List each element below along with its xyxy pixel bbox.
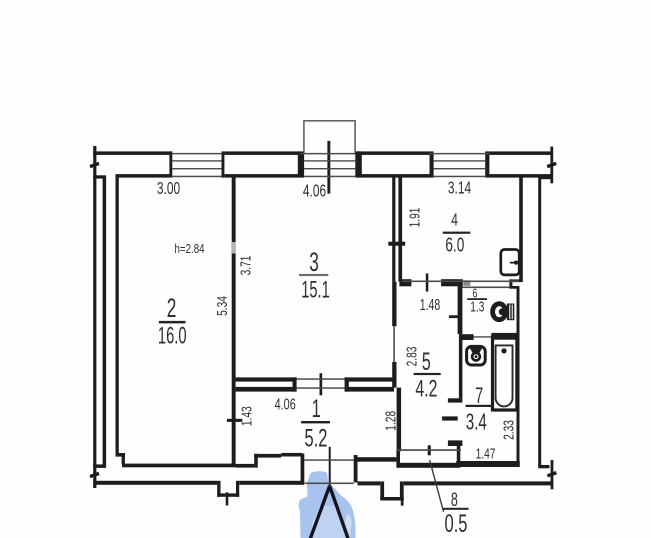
svg-text:5.34: 5.34 [213, 296, 231, 316]
bottom outer line seg2 [239, 481, 304, 485]
kitchen corner zig h1 [509, 279, 522, 282]
chimney stack line above W2 [327, 141, 330, 194]
bottom outer line seg1 [93, 481, 217, 485]
dim tick 1.43 on partition [227, 419, 242, 422]
svg-text:4.06: 4.06 [303, 181, 326, 201]
toilet top thin line [462, 287, 509, 289]
svg-text:8: 8 [451, 489, 458, 510]
left wall inner face [116, 177, 119, 454]
room 3 fraction bar [299, 274, 328, 276]
corridor floor seg1 [236, 464, 255, 468]
svg-text:4.06: 4.06 [275, 395, 296, 413]
room8 top thin line [396, 449, 461, 451]
room1 top wall band upper seg1 [236, 377, 297, 381]
svg-text:15.1: 15.1 [301, 277, 330, 304]
divider 3|5 lower [392, 362, 396, 388]
tick 3.4 [442, 416, 458, 420]
room1 top wall cap2 [345, 377, 349, 391]
tick 1.3 [449, 315, 462, 318]
kitchen corner zig h2 [509, 286, 519, 289]
divider 3|4 line B [398, 176, 402, 282]
wall rooms 6|7 bar [459, 334, 474, 340]
left wall top cap [93, 175, 106, 178]
shaft box above W2 [304, 121, 355, 154]
svg-text:3: 3 [309, 246, 319, 277]
leader line for room 8 label [429, 460, 444, 512]
svg-text:3.14: 3.14 [448, 178, 471, 198]
tub top wall block [491, 333, 519, 340]
bathtub outer [493, 337, 517, 410]
room8 left wall [396, 449, 400, 463]
entrance opening thin line upper [304, 459, 353, 461]
corridor floor seg2 [254, 454, 281, 458]
kitchen bottom wall bar [441, 279, 463, 286]
window W1 left cap [169, 151, 172, 177]
bath door thin line 6|7 [474, 336, 498, 337]
left dim tick bottom [89, 472, 99, 478]
room3 door thin line in divider [393, 326, 395, 362]
svg-text:1.28: 1.28 [382, 411, 400, 431]
right wall top step [539, 176, 553, 179]
top wall inner line pier1 [116, 174, 170, 178]
room 5 fraction bar [414, 373, 441, 375]
right pier tick [401, 493, 404, 506]
svg-text:4.2: 4.2 [415, 376, 437, 402]
svg-text:1.3: 1.3 [470, 299, 484, 315]
entrance left jamb [301, 454, 305, 483]
kitchen door opening thin line [402, 281, 519, 283]
svg-text:16.0: 16.0 [158, 323, 187, 350]
kitchen inner right wall [519, 177, 523, 281]
top wall outer line pier2 [224, 151, 299, 155]
divider 3|5 upper [392, 282, 396, 327]
svg-text:1.43: 1.43 [237, 406, 255, 426]
bottom outer line seg3 [358, 481, 381, 485]
top wall inner line pier3 [360, 174, 430, 178]
room8 door tick [428, 445, 431, 455]
entrance door triangle [310, 486, 348, 538]
window W3 lines [430, 153, 490, 155]
svg-text:1: 1 [312, 396, 321, 423]
bath block inner right wall [517, 287, 520, 466]
window W3 right cap [485, 151, 489, 177]
bathtub inner tub [496, 345, 513, 406]
kitchen corner zig v [509, 279, 512, 286]
divider below corridor wall [397, 388, 402, 452]
svg-text:h=2.84: h=2.84 [174, 243, 205, 257]
right dim tick top [547, 162, 557, 168]
top wall inner line pier2 [224, 174, 299, 178]
bath door jamb lower [448, 440, 463, 446]
window W1 lines [172, 153, 222, 155]
svg-text:6.0: 6.0 [445, 234, 464, 256]
room 8 fraction bar [443, 508, 469, 510]
room1 top wall band lower seg2 [345, 387, 394, 392]
divider 3|4 line A [392, 176, 395, 282]
partition rooms 2|3 [232, 177, 236, 465]
right dim stub bottom [551, 460, 554, 489]
corridor floor seg3 [281, 453, 302, 457]
corridor south wall top edge [358, 457, 397, 462]
window W2 right cap [355, 151, 362, 177]
right dim stub top [550, 147, 553, 184]
room1 top wall band lower seg1 [236, 387, 297, 392]
svg-text:3.00: 3.00 [157, 179, 180, 199]
room1 top wall cap1 [293, 377, 297, 391]
svg-text:3.71: 3.71 [237, 256, 255, 276]
entrance right jamb [354, 455, 358, 483]
toilet WC icon: tank [499, 308, 506, 315]
room1 door opening thin lines [297, 378, 345, 380]
entrance opening thin line lower [304, 483, 353, 485]
left wall bottom cap [93, 464, 106, 468]
corridor floor step [254, 454, 258, 468]
bath left wall lower [457, 446, 461, 467]
left pier tick [226, 492, 229, 505]
room2 floor line [122, 464, 236, 468]
top wall outer line pier4 [489, 151, 552, 155]
svg-text:7: 7 [475, 383, 483, 408]
icons [467, 250, 520, 411]
window W2 lines [300, 153, 356, 155]
dim line 5.2 [329, 447, 331, 488]
room 1 fraction bar [301, 421, 330, 423]
room1 top wall band upper seg2 [345, 377, 394, 381]
thin lines [172, 121, 519, 512]
left pier side R [236, 481, 239, 497]
room2 floor notch h [116, 453, 126, 457]
svg-text:3.4: 3.4 [466, 409, 487, 435]
right pier side R [400, 481, 404, 500]
room8 bottom wall [396, 463, 460, 468]
right wall outer face [538, 177, 541, 466]
left pier side L [217, 481, 220, 497]
window W1 right cap [222, 151, 225, 177]
svg-text:5: 5 [422, 349, 431, 376]
window W2 left cap [298, 151, 304, 177]
divider dim tick 1.91 [388, 242, 405, 246]
right pier side L [380, 481, 384, 500]
left dimension line [93, 146, 96, 488]
room 6 fraction bar [467, 298, 487, 300]
bathtub drain [501, 348, 506, 353]
entrance highlight blue blob [299, 471, 356, 538]
svg-text:2.83: 2.83 [402, 347, 420, 367]
left wall outer face [103, 177, 107, 466]
svg-text:1.91: 1.91 [405, 208, 423, 228]
kitchen door tick [426, 273, 429, 291]
top wall outer line pier3 [355, 151, 429, 155]
right wall bottom step [538, 465, 549, 468]
wall rooms 5|6 [458, 286, 463, 334]
room1 door tick [320, 373, 323, 395]
kitchen bottom wall stub left [399, 279, 411, 286]
left dim tick top [89, 162, 99, 168]
svg-text:5.2: 5.2 [305, 425, 328, 452]
bath door jamb upper [448, 398, 463, 402]
svg-text:2.33: 2.33 [500, 420, 518, 440]
svg-text:1.48: 1.48 [420, 296, 441, 314]
svg-text:1.47: 1.47 [476, 444, 496, 462]
room2 floor notch v [122, 455, 125, 465]
washbasin icon [467, 346, 486, 365]
svg-text:2: 2 [167, 292, 177, 323]
kitchen stove icon [501, 250, 519, 275]
bottom outer line seg4 [404, 481, 552, 485]
top wall outer line pier1 [93, 151, 172, 155]
room 2 fraction bar [159, 321, 186, 324]
toilet WC icon: bowl [493, 304, 506, 320]
right pier bottom [380, 497, 403, 501]
walls [89, 141, 557, 506]
right dim tick bottom [547, 471, 557, 477]
watermark light patch on partition [232, 242, 236, 254]
svg-text:4: 4 [451, 210, 458, 230]
bath bottom wall [456, 461, 520, 467]
room 7 fraction bar [466, 405, 495, 407]
window W3 left cap [430, 151, 434, 177]
bath left wall upper [459, 336, 463, 398]
left pier bottom [217, 493, 239, 496]
kitchen bottom wall grey bar [463, 280, 470, 286]
room 4 fraction bar [443, 232, 471, 234]
top wall inner line pier4 [489, 174, 552, 178]
svg-text:0.5: 0.5 [445, 511, 468, 538]
